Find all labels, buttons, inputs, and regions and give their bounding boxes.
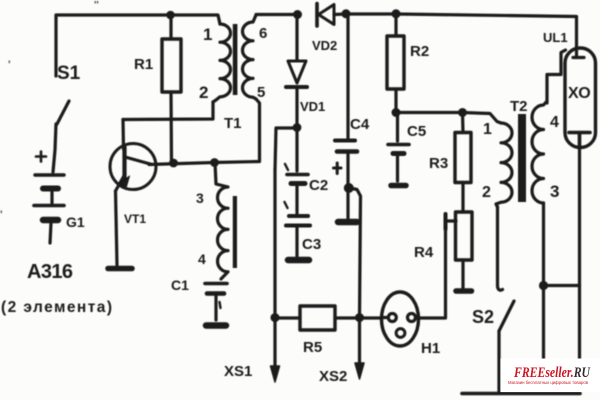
svg-text:ХS2: ХS2: [319, 368, 347, 385]
wire T2 pin2 down to S2 contact: [498, 207, 503, 290]
svg-text:2: 2: [199, 83, 208, 102]
resistor R4 (trimmer): [456, 212, 473, 260]
svg-text:С4: С4: [350, 116, 370, 133]
wire R1 bottom lead: [169, 92, 173, 163]
svg-text:4: 4: [198, 251, 206, 267]
svg-text:VD1: VD1: [300, 99, 325, 114]
switch S1: [57, 101, 69, 124]
svg-text:3: 3: [196, 190, 204, 206]
transformer T2 core: [518, 114, 526, 202]
wire VD1 cathode lead: [295, 89, 298, 126]
wire R5 to H1: [335, 316, 382, 319]
wire node rail to T2 pin1: [396, 113, 501, 124]
wire VD2 to C4 node: [334, 12, 346, 16]
svg-text:Н1: Н1: [421, 340, 440, 357]
wire T2 pin4 trigger to lamp: [547, 50, 566, 103]
svg-text:5: 5: [257, 84, 265, 101]
wire left rail to R5: [275, 316, 300, 319]
svg-text:G1: G1: [66, 214, 85, 230]
resistor R2: [387, 36, 404, 89]
svg-text:R3: R3: [429, 155, 448, 172]
node junction below R2: [392, 108, 401, 117]
wire VT1 emitter to ground: [116, 191, 118, 265]
svg-text:1: 1: [483, 121, 492, 138]
wire top rail right to lamp: [396, 14, 577, 48]
battery G1: [34, 175, 64, 243]
wire C4-node to R2 node: [346, 12, 396, 15]
node junction R2 branch: [392, 9, 401, 18]
resistor R5: [300, 306, 335, 330]
transformer T1 core upper: [233, 24, 238, 95]
wire XS2 node up to C4 node: [350, 188, 361, 318]
wire wiper down to H1: [419, 227, 446, 318]
wire R2 top lead: [394, 14, 397, 35]
wire T2 pin3 down: [542, 203, 545, 286]
svg-text:Т2: Т2: [510, 98, 528, 115]
svg-text:S1: S1: [57, 63, 81, 84]
svg-text:4: 4: [550, 114, 559, 131]
R4 wiper bar: [444, 214, 448, 229]
svg-text:FREEseller.RU: FREEseller.RU: [513, 365, 591, 381]
svg-text:R5: R5: [303, 339, 322, 356]
svg-text:С5: С5: [407, 123, 426, 140]
wire R3 top lead: [461, 113, 465, 132]
svg-text:С1: С1: [171, 277, 189, 293]
lamp UL1 top electrode: [573, 48, 584, 58]
wire S1 to battery: [53, 124, 56, 172]
resistor R1: [162, 39, 181, 92]
wire XS2 branch down: [358, 318, 361, 364]
wire top rail left (S1 to T1 pin1): [56, 15, 220, 76]
svg-text:'': '': [94, 0, 99, 11]
wire C5 top lead: [396, 113, 399, 141]
svg-text:3: 3: [550, 182, 559, 201]
wire VD1 node to C2: [295, 128, 298, 171]
svg-text:R1: R1: [134, 56, 153, 73]
capacitor C2: [285, 164, 308, 213]
svg-text:Т1: Т1: [224, 115, 242, 132]
capacitor C5: [388, 145, 409, 186]
svg-text:': ': [8, 59, 11, 71]
diode VD1: [286, 61, 307, 87]
svg-text:6: 6: [259, 25, 267, 42]
node junction left rail / R5: [271, 313, 280, 322]
switch S2 blade: [499, 301, 514, 331]
svg-text:S2: S2: [472, 307, 494, 327]
node junction above T1 winding3: [210, 158, 219, 167]
wire R4 bottom lead: [461, 260, 464, 288]
transformer T2 primary winding 1-2: [496, 123, 512, 207]
node junction bottom right: [539, 281, 548, 290]
transformer T1 secondary winding 6-5: [242, 15, 256, 99]
transformer T2 secondary winding 4-3: [532, 101, 547, 203]
node junction above R3: [458, 108, 467, 117]
terminator R4: [456, 288, 472, 294]
terminator C4: [338, 219, 357, 226]
connector XS2 arrow: [355, 363, 364, 379]
svg-text:R4: R4: [414, 244, 434, 261]
wire C4 top lead: [346, 17, 349, 138]
wire VD1 anode lead: [295, 17, 298, 60]
battery plus sign: [36, 152, 46, 162]
watermark box: [501, 359, 600, 393]
transformer T1 winding 3-4: [215, 163, 228, 280]
resistor R3: [455, 133, 471, 183]
capacitor C1: [205, 284, 227, 326]
transformer T1 core lower: [233, 196, 237, 268]
svg-text:UL1: UL1: [543, 30, 568, 45]
wire bottom rail: [462, 392, 580, 396]
svg-text:VT1: VT1: [124, 212, 146, 226]
wire bottom right rail: [544, 284, 580, 287]
node junction above R1: [166, 11, 175, 20]
node junction R1-collector: [169, 159, 178, 168]
svg-text:С3: С3: [302, 236, 321, 253]
svg-text:R2: R2: [410, 43, 429, 60]
node junction VD1 branch top: [293, 10, 302, 19]
node junction C4 branch: [342, 9, 351, 18]
transformer T1 primary winding 1-2: [213, 24, 231, 102]
wire collector rail y163: [149, 99, 260, 165]
wire lamp bottom lead down: [578, 148, 581, 359]
svg-text:А316: А316: [27, 261, 73, 283]
capacitor C3: [285, 202, 311, 260]
svg-text:ХS1: ХS1: [224, 363, 252, 380]
lamp UL1 envelope: [565, 48, 596, 148]
transistor VT1: [110, 144, 156, 192]
wire C4 ground stub: [346, 192, 349, 218]
C4 plus sign: [334, 163, 342, 174]
lamp H1 (neon): [382, 292, 419, 346]
svg-text:': ': [0, 209, 3, 221]
wire R2 bottom lead: [394, 89, 397, 111]
wire T1 pin2 to VT1 base: [123, 102, 213, 120]
wire R1 top lead: [169, 15, 172, 39]
node junction XS2: [355, 313, 364, 322]
lamp UL1 bottom electrode: [569, 133, 590, 149]
svg-text:С2: С2: [309, 177, 328, 194]
capacitor C4: [335, 141, 357, 186]
wire S2 bottom lead: [497, 331, 500, 392]
svg-text:1: 1: [203, 25, 212, 44]
wire top rail middle (T1 pin6 to VD2): [256, 13, 294, 16]
wire left rail XS1: [273, 170, 276, 368]
svg-text:Магазин бесплатных цифровых то: Магазин бесплатных цифровых товаров: [508, 380, 589, 385]
svg-text:VD2: VD2: [312, 38, 337, 53]
wire R4 wiper to resistor body: [446, 219, 456, 222]
wire T2 pin3 riser to bottom: [542, 286, 545, 360]
wire branch to left rail: [275, 128, 297, 170]
svg-text:2: 2: [482, 184, 491, 201]
wire VT1 base lead: [121, 120, 125, 150]
ground under VT1: [108, 266, 132, 272]
connector XS1 arrow: [271, 366, 280, 382]
node junction VD1-XS1 branch: [293, 123, 302, 132]
diode VD2: [317, 4, 334, 27]
node junction C4 bottom: [344, 183, 354, 193]
svg-text:(2 элемента): (2 элемента): [1, 299, 112, 316]
wire R3 to R4: [461, 183, 464, 213]
watermark FREEseller.RU: [508, 365, 591, 385]
svg-text:ХО: ХО: [568, 85, 591, 102]
